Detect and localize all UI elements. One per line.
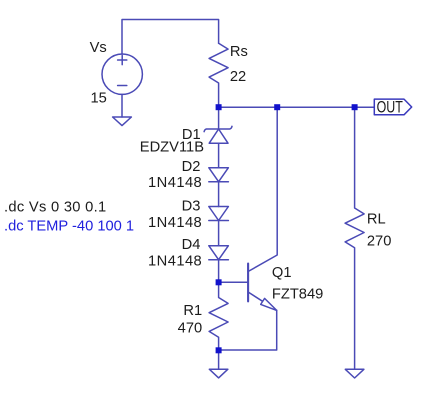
- svg-text:D4: D4: [182, 237, 201, 253]
- svg-text:270: 270: [367, 234, 392, 250]
- svg-text:RL: RL: [367, 212, 386, 228]
- svg-text:Q1: Q1: [272, 265, 292, 281]
- svg-text:R1: R1: [183, 303, 202, 319]
- svg-text:470: 470: [178, 321, 203, 337]
- svg-text:15: 15: [91, 91, 107, 107]
- svg-text:OUT: OUT: [377, 98, 403, 116]
- svg-text:EDZV11B: EDZV11B: [140, 139, 204, 155]
- svg-text:FZT849: FZT849: [272, 286, 323, 302]
- svg-text:.dc Vs 0 30 0.1: .dc Vs 0 30 0.1: [4, 200, 106, 216]
- svg-text:.dc TEMP -40 100 1: .dc TEMP -40 100 1: [4, 219, 134, 235]
- svg-text:Rs: Rs: [230, 44, 248, 60]
- svg-text:1N4148: 1N4148: [148, 175, 202, 191]
- svg-text:Vs: Vs: [90, 40, 107, 56]
- svg-text:1N4148: 1N4148: [148, 215, 202, 231]
- svg-text:22: 22: [230, 69, 246, 85]
- svg-text:D3: D3: [182, 198, 201, 214]
- svg-text:D2: D2: [182, 159, 201, 175]
- svg-text:1N4148: 1N4148: [148, 254, 202, 270]
